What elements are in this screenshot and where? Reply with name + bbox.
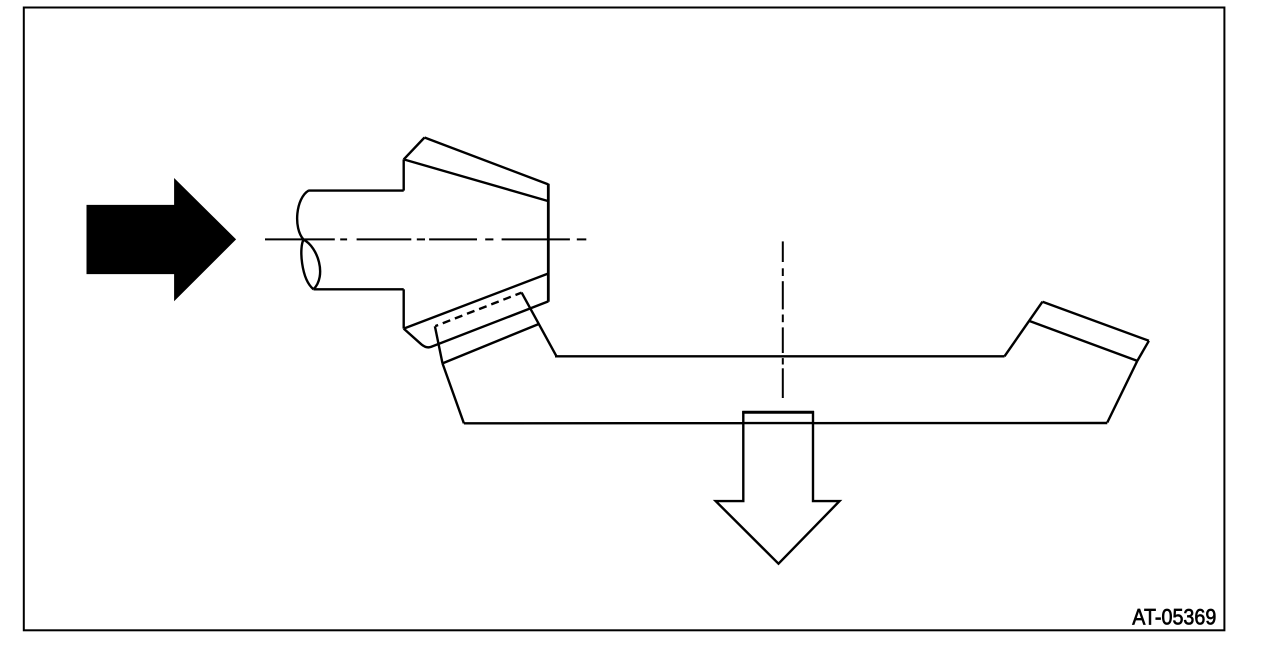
gear face vertical: [547, 184, 550, 302]
right band second edge: [1030, 321, 1138, 361]
right band right edge: [1137, 341, 1149, 361]
top inner edge: [404, 159, 549, 201]
input force arrow (black, pointing right): [87, 178, 237, 301]
top chamfer: [404, 138, 425, 160]
svg-text:AT-05369: AT-05369: [1132, 604, 1216, 629]
shaft bottom line: [314, 288, 404, 290]
top outer edge: [425, 138, 549, 185]
ring gear centerline (vertical dash-dot): [782, 241, 784, 398]
shaft end outer curve: [297, 191, 320, 290]
left band left edge: [435, 326, 443, 363]
right band top edge: [1043, 302, 1149, 341]
bottom chamfer with rounded corner: [404, 301, 549, 347]
bottom line across arrow: [743, 422, 813, 424]
shaft top line: [308, 189, 404, 191]
drive pinion centerline (horizontal dash-dot): [265, 238, 586, 240]
back vertical (bottom): [403, 289, 405, 328]
left band right steep edge: [522, 293, 557, 357]
right outer slant: [1107, 361, 1137, 423]
shaft end face curve: [301, 240, 313, 290]
hub boss top edge (thick): [742, 411, 814, 414]
top surface line: [555, 355, 1005, 357]
left outer slant: [443, 363, 464, 423]
left band lower edge: [443, 324, 539, 363]
back vertical (top): [403, 159, 405, 190]
bottom line: [464, 422, 1107, 425]
right band left steep edge: [1005, 302, 1043, 357]
left band hidden top edge (dashed): [435, 293, 521, 327]
drive pinion gear: [404, 138, 549, 348]
bottom inner edge: [404, 274, 549, 329]
ring gear: [435, 293, 1149, 424]
output force arrow (white outline, pointing down): [716, 412, 840, 563]
pinion shaft: [297, 191, 404, 290]
